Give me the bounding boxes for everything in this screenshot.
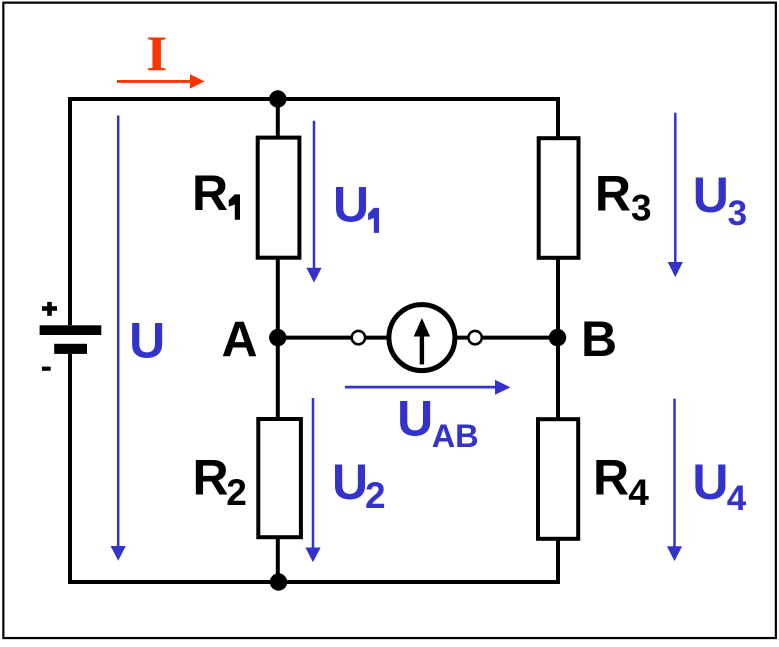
junction bottom node (270, 573, 287, 590)
resistor R3 (539, 138, 579, 258)
svg-text:AB: AB (432, 418, 479, 454)
svg-text:U: U (693, 167, 729, 223)
junction top node (269, 90, 286, 107)
meter terminal left (352, 331, 365, 344)
wire: middle vertical branch through R1 R2 (276, 97, 280, 582)
wire: bridge A to B (278, 336, 558, 340)
label R3 (595, 165, 652, 228)
node B junction (549, 329, 566, 346)
svg-text:R: R (593, 450, 629, 506)
label UAB (397, 391, 479, 455)
label R4 (593, 450, 649, 513)
svg-text:U: U (333, 176, 369, 232)
meter M1 needle arrow (414, 318, 430, 364)
label U4 (692, 454, 746, 518)
svg-text:U: U (397, 391, 433, 447)
wire: left branch upper (battery top) (68, 97, 72, 325)
voltage arrow U3 (668, 113, 683, 277)
svg-text:4: 4 (628, 472, 649, 513)
resistor R4 (538, 419, 578, 539)
svg-text:R: R (192, 165, 228, 221)
wire: bottom (68, 580, 560, 584)
resistor R2 (258, 419, 301, 537)
svg-text:I: I (146, 26, 167, 81)
wire: right vertical branch through R3 R4 (556, 97, 560, 582)
svg-text:B: B (581, 311, 617, 367)
voltage arrow UAB (bridge, blue) (345, 380, 511, 395)
label R2 (193, 450, 247, 513)
label U1 (333, 176, 379, 233)
node A junction (269, 329, 286, 346)
battery minus sign (42, 367, 51, 371)
svg-text:3: 3 (631, 188, 652, 229)
current arrow I (red) (117, 74, 205, 88)
resistor R1 (258, 138, 300, 258)
label U2 (332, 454, 386, 516)
wire: top from left corner to right corner (68, 97, 560, 101)
wire: left branch lower (battery bottom) (68, 354, 72, 584)
voltage arrow U1 (306, 121, 321, 283)
voltage arrow U2 (305, 398, 320, 562)
svg-text:R: R (193, 450, 229, 506)
svg-text:U: U (129, 312, 165, 368)
battery plus sign (42, 302, 57, 316)
svg-text:U: U (692, 454, 728, 510)
voltage arrow U4 (667, 399, 682, 561)
meter M1 body (389, 305, 455, 371)
label R1 (192, 165, 240, 221)
svg-text:3: 3 (728, 194, 747, 233)
battery V1 negative plate (54, 344, 87, 354)
svg-text:2: 2 (365, 475, 386, 516)
svg-text:R: R (595, 165, 631, 221)
svg-text:2: 2 (226, 472, 247, 513)
svg-text:U: U (332, 454, 368, 510)
label U3 (693, 167, 747, 233)
voltage arrow U (left, blue) (111, 116, 126, 561)
meter terminal right (468, 331, 481, 344)
svg-text:4: 4 (727, 479, 747, 518)
svg-text:A: A (222, 312, 258, 368)
battery V1 positive plate (40, 325, 102, 335)
